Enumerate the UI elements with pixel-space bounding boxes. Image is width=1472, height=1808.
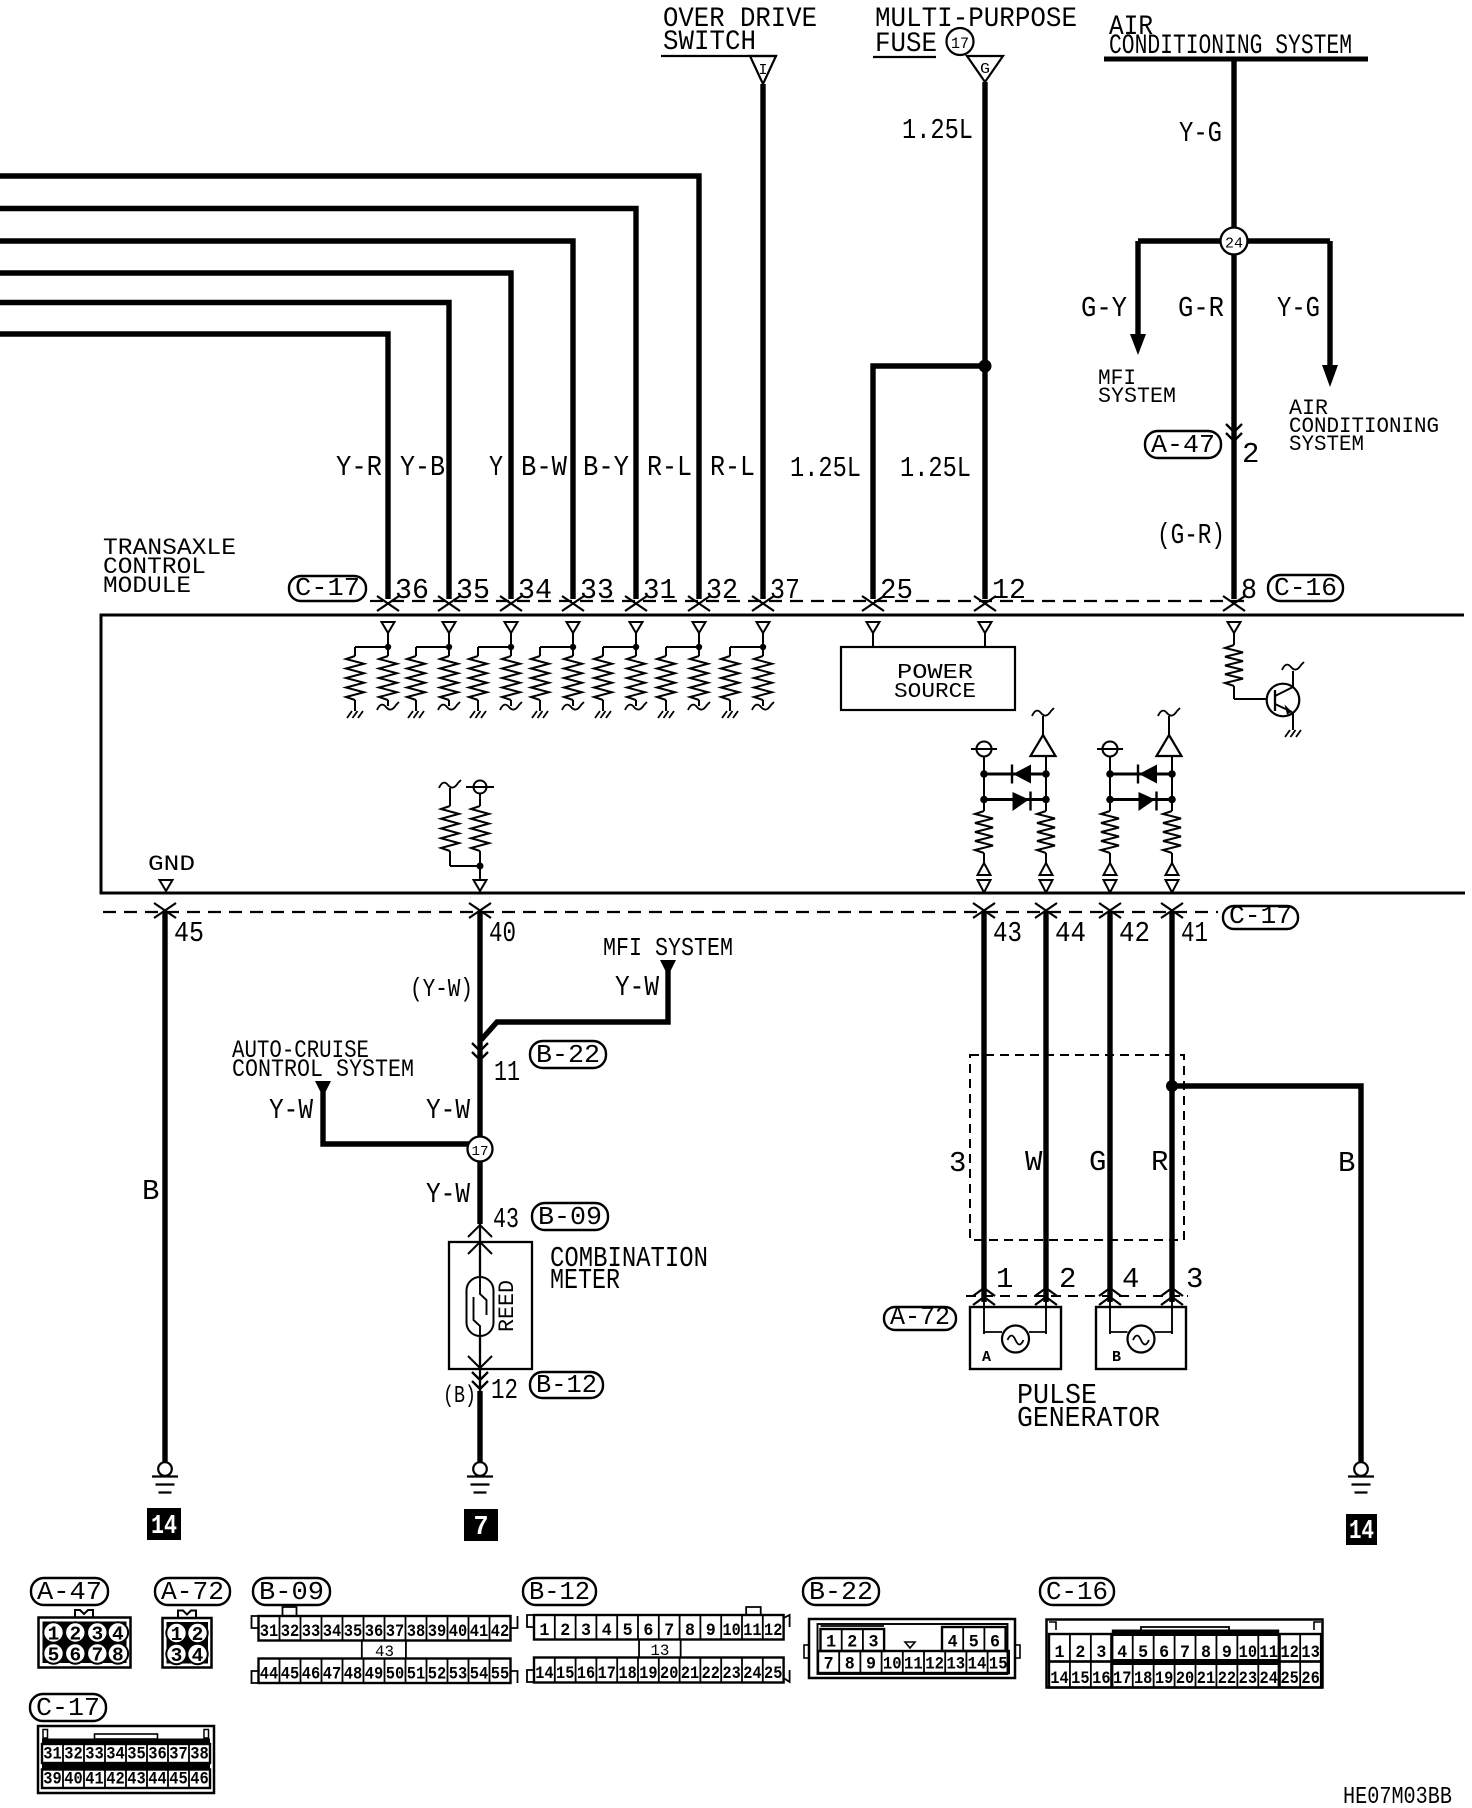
svg-text:Y-R: Y-R [336, 451, 382, 484]
svg-text:9: 9 [866, 1655, 876, 1675]
svg-text:MODULE: MODULE [103, 573, 191, 599]
svg-text:9: 9 [706, 1621, 716, 1641]
svg-text:37: 37 [386, 1622, 405, 1642]
svg-text:2: 2 [192, 1624, 204, 1646]
svg-text:23: 23 [1239, 1669, 1257, 1689]
svg-text:14: 14 [968, 1655, 987, 1675]
svg-text:55: 55 [491, 1665, 510, 1685]
svg-text:42: 42 [491, 1622, 510, 1642]
svg-text:CONTROL SYSTEM: CONTROL SYSTEM [232, 1055, 414, 1084]
svg-text:2: 2 [560, 1621, 570, 1641]
svg-text:4: 4 [1122, 1263, 1139, 1296]
svg-text:42: 42 [106, 1770, 125, 1790]
svg-text:31: 31 [43, 1745, 62, 1765]
svg-text:1: 1 [48, 1624, 60, 1646]
svg-text:21: 21 [1197, 1669, 1215, 1689]
svg-text:3: 3 [1096, 1643, 1106, 1663]
svg-text:B-22: B-22 [536, 1040, 600, 1070]
svg-text:MFI SYSTEM: MFI SYSTEM [603, 933, 733, 963]
svg-text:32: 32 [281, 1622, 300, 1642]
svg-text:8: 8 [845, 1655, 855, 1675]
svg-text:5: 5 [969, 1633, 979, 1653]
svg-text:33: 33 [85, 1745, 104, 1765]
svg-text:FUSE: FUSE [875, 29, 937, 60]
svg-text:1: 1 [826, 1633, 836, 1653]
svg-text:24: 24 [743, 1664, 761, 1684]
svg-text:24: 24 [1225, 236, 1243, 253]
svg-text:C-17: C-17 [36, 1693, 100, 1723]
svg-text:G: G [980, 61, 990, 78]
svg-text:SOURCE: SOURCE [894, 681, 976, 704]
svg-text:35: 35 [344, 1622, 363, 1642]
svg-text:1: 1 [996, 1263, 1013, 1296]
svg-text:44: 44 [1055, 917, 1086, 950]
svg-text:B-22: B-22 [809, 1577, 873, 1607]
svg-text:(Y-W): (Y-W) [410, 974, 473, 1004]
svg-text:16: 16 [1092, 1669, 1110, 1689]
svg-text:4: 4 [602, 1621, 612, 1641]
svg-text:Y-B: Y-B [400, 451, 445, 484]
svg-text:3: 3 [91, 1624, 103, 1646]
svg-text:36: 36 [148, 1745, 167, 1765]
svg-text:R-L: R-L [647, 451, 692, 484]
svg-text:SWITCH: SWITCH [663, 27, 756, 58]
svg-text:14: 14 [1349, 1517, 1374, 1547]
svg-text:Y-W: Y-W [426, 1178, 470, 1211]
svg-text:50: 50 [386, 1665, 405, 1685]
svg-text:13: 13 [1301, 1643, 1319, 1663]
svg-text:(B): (B) [443, 1383, 476, 1410]
svg-text:52: 52 [428, 1665, 447, 1685]
svg-text:6: 6 [990, 1633, 1000, 1653]
svg-text:GENERATOR: GENERATOR [1017, 1402, 1160, 1435]
svg-text:18: 18 [1134, 1669, 1152, 1689]
svg-text:C-16: C-16 [1274, 573, 1337, 603]
svg-text:14: 14 [535, 1664, 553, 1684]
svg-text:7: 7 [91, 1645, 103, 1667]
svg-text:39: 39 [428, 1622, 447, 1642]
svg-text:I: I [758, 62, 767, 79]
svg-text:41: 41 [470, 1622, 489, 1642]
svg-text:54: 54 [470, 1665, 489, 1685]
svg-text:Y-W: Y-W [269, 1094, 313, 1127]
svg-text:B: B [1338, 1147, 1355, 1180]
svg-text:1: 1 [539, 1621, 549, 1641]
svg-text:G: G [1089, 1146, 1106, 1179]
svg-text:1.25L: 1.25L [900, 452, 971, 485]
svg-text:34: 34 [323, 1622, 342, 1642]
svg-text:2: 2 [1075, 1643, 1085, 1663]
svg-text:6: 6 [69, 1645, 81, 1667]
svg-text:19: 19 [639, 1664, 657, 1684]
svg-text:Y: Y [489, 451, 503, 484]
svg-text:39: 39 [43, 1770, 62, 1790]
svg-text:31: 31 [260, 1622, 279, 1642]
svg-text:15: 15 [989, 1655, 1008, 1675]
svg-text:45: 45 [281, 1665, 300, 1685]
svg-text:17: 17 [951, 35, 969, 53]
svg-text:44: 44 [148, 1770, 167, 1790]
svg-text:8: 8 [112, 1645, 124, 1667]
svg-text:21: 21 [681, 1664, 699, 1684]
svg-text:5: 5 [623, 1621, 633, 1641]
svg-text:HE07M03BB: HE07M03BB [1343, 1784, 1452, 1808]
svg-text:B-Y: B-Y [583, 451, 629, 484]
svg-text:C-17: C-17 [295, 573, 360, 603]
svg-text:20: 20 [1176, 1669, 1194, 1689]
svg-text:48: 48 [344, 1665, 363, 1685]
svg-text:12: 12 [1280, 1643, 1298, 1663]
svg-text:10: 10 [883, 1655, 902, 1675]
svg-text:B: B [142, 1175, 159, 1208]
svg-text:43: 43 [493, 1203, 519, 1236]
svg-text:2: 2 [1242, 438, 1259, 471]
svg-text:GND: GND [148, 852, 195, 877]
svg-text:W: W [1025, 1146, 1043, 1179]
svg-text:4: 4 [112, 1624, 124, 1646]
svg-text:2: 2 [847, 1633, 857, 1653]
svg-text:A-47: A-47 [1151, 430, 1215, 460]
svg-text:3: 3 [949, 1147, 966, 1180]
svg-text:3: 3 [581, 1621, 591, 1641]
svg-text:11: 11 [494, 1056, 520, 1089]
svg-text:41: 41 [85, 1770, 104, 1790]
svg-text:G-Y: G-Y [1081, 292, 1127, 325]
svg-text:B-09: B-09 [538, 1202, 602, 1232]
svg-text:A-47: A-47 [37, 1577, 102, 1607]
svg-text:15: 15 [1071, 1669, 1089, 1689]
svg-text:17: 17 [472, 1144, 489, 1160]
svg-text:45: 45 [169, 1770, 188, 1790]
svg-text:46: 46 [302, 1665, 321, 1685]
svg-text:22: 22 [1218, 1669, 1236, 1689]
svg-text:42: 42 [1119, 917, 1150, 950]
svg-text:2: 2 [69, 1624, 81, 1646]
svg-text:A-72: A-72 [890, 1302, 950, 1332]
svg-text:12: 12 [764, 1621, 782, 1641]
svg-text:11: 11 [743, 1621, 761, 1641]
svg-text:METER: METER [550, 1264, 620, 1297]
svg-text:6: 6 [643, 1621, 653, 1641]
svg-text:4: 4 [948, 1633, 958, 1653]
svg-text:12: 12 [925, 1655, 944, 1675]
svg-text:7: 7 [664, 1621, 674, 1641]
svg-text:B: B [1112, 1349, 1121, 1366]
svg-text:REED: REED [495, 1280, 520, 1332]
svg-text:A: A [982, 1349, 991, 1366]
svg-text:8: 8 [685, 1621, 695, 1641]
svg-text:47: 47 [323, 1665, 342, 1685]
svg-text:R: R [1151, 1146, 1168, 1179]
svg-text:14: 14 [1050, 1669, 1068, 1689]
svg-text:B-12: B-12 [529, 1577, 590, 1607]
svg-text:17: 17 [598, 1664, 616, 1684]
svg-text:17: 17 [1113, 1669, 1131, 1689]
svg-text:36: 36 [365, 1622, 384, 1642]
svg-text:40: 40 [64, 1770, 83, 1790]
svg-text:40: 40 [449, 1622, 468, 1642]
svg-text:37: 37 [169, 1745, 188, 1765]
svg-text:14: 14 [151, 1512, 177, 1542]
svg-text:1.25L: 1.25L [790, 452, 861, 485]
svg-text:B-W: B-W [521, 451, 568, 484]
svg-text:44: 44 [260, 1665, 279, 1685]
svg-text:51: 51 [407, 1665, 426, 1685]
svg-text:53: 53 [449, 1665, 468, 1685]
svg-text:45: 45 [174, 917, 204, 950]
svg-text:43: 43 [993, 917, 1022, 950]
svg-text:SYSTEM: SYSTEM [1289, 432, 1364, 457]
svg-text:B-09: B-09 [259, 1577, 324, 1607]
svg-text:5: 5 [48, 1645, 60, 1667]
svg-text:33: 33 [302, 1622, 321, 1642]
svg-text:34: 34 [106, 1745, 125, 1765]
svg-text:38: 38 [407, 1622, 426, 1642]
svg-text:C-17: C-17 [1229, 901, 1292, 931]
svg-text:41: 41 [1181, 917, 1208, 950]
svg-text:20: 20 [660, 1664, 678, 1684]
svg-text:G-R: G-R [1178, 292, 1224, 325]
svg-text:2: 2 [1059, 1263, 1076, 1296]
svg-text:38: 38 [190, 1745, 209, 1765]
svg-text:3: 3 [869, 1633, 879, 1653]
svg-text:C-16: C-16 [1046, 1577, 1108, 1607]
svg-text:19: 19 [1155, 1669, 1173, 1689]
svg-text:35: 35 [127, 1745, 146, 1765]
svg-text:7: 7 [824, 1655, 834, 1675]
svg-text:22: 22 [702, 1664, 720, 1684]
svg-text:R-L: R-L [710, 451, 755, 484]
svg-text:7: 7 [474, 1513, 489, 1543]
svg-text:49: 49 [365, 1665, 384, 1685]
svg-text:1: 1 [1054, 1643, 1064, 1663]
svg-text:24: 24 [1260, 1669, 1278, 1689]
svg-text:40: 40 [489, 917, 516, 950]
svg-text:1.25L: 1.25L [902, 114, 973, 147]
svg-text:Y-W: Y-W [615, 971, 659, 1004]
svg-text:25: 25 [1280, 1669, 1298, 1689]
svg-text:25: 25 [764, 1664, 782, 1684]
svg-text:32: 32 [64, 1745, 83, 1765]
svg-text:18: 18 [618, 1664, 636, 1684]
svg-text:26: 26 [1301, 1669, 1319, 1689]
svg-text:SYSTEM: SYSTEM [1098, 384, 1176, 409]
svg-text:16: 16 [577, 1664, 595, 1684]
svg-text:3: 3 [171, 1645, 183, 1667]
svg-text:15: 15 [556, 1664, 574, 1684]
svg-text:B-12: B-12 [536, 1370, 597, 1400]
svg-text:A-72: A-72 [161, 1577, 224, 1607]
svg-text:10: 10 [722, 1621, 740, 1641]
svg-text:12: 12 [491, 1374, 518, 1407]
svg-text:(G-R): (G-R) [1157, 519, 1225, 552]
svg-text:43: 43 [127, 1770, 146, 1790]
svg-text:Y-W: Y-W [426, 1094, 470, 1127]
svg-text:11: 11 [904, 1655, 923, 1675]
svg-text:4: 4 [192, 1645, 204, 1667]
svg-text:23: 23 [722, 1664, 740, 1684]
svg-text:46: 46 [190, 1770, 209, 1790]
svg-text:1: 1 [171, 1624, 183, 1646]
svg-text:Y-G: Y-G [1277, 292, 1320, 325]
svg-text:Y-G: Y-G [1179, 117, 1222, 150]
svg-text:13: 13 [946, 1655, 965, 1675]
svg-text:3: 3 [1186, 1263, 1203, 1296]
